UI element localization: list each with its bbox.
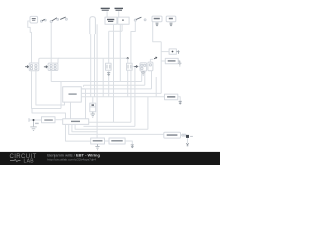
dark text blobs <box>25 8 177 142</box>
wire J3 pin to x108 column <box>109 24 122 31</box>
wire y57.8 horizontal <box>40 57 128 59</box>
arrow between D2 D3 <box>134 65 137 67</box>
relay D3 block <box>140 63 147 71</box>
wire SW4 down to D2 <box>131 21 135 63</box>
leader label1 <box>106 11 108 17</box>
arrow under D1 <box>107 73 110 76</box>
mesh horizontal y88.35 <box>81 88 151 90</box>
USB connector J1 box <box>105 17 117 24</box>
wire V1 down-jog <box>28 21 32 63</box>
wire J2 bottom to mesh <box>50 71 52 82</box>
J3 dot <box>122 20 124 21</box>
J1 text <box>107 19 114 20</box>
mesh horizontal y84.8 <box>84 84 145 86</box>
switch SW4 end circle <box>144 19 146 21</box>
ground under U4 <box>95 144 99 150</box>
EBT PWR box U1 <box>63 87 82 102</box>
mesh horizontal y81 <box>51 81 142 83</box>
CircuitLab logo <box>10 154 37 165</box>
wire D1 column lower <box>108 76 110 97</box>
top right box A <box>152 16 162 22</box>
boxC right arrow <box>176 50 179 54</box>
mesh horizontal y92.9 <box>81 92 161 94</box>
C2 hook <box>58 58 59 63</box>
connector T2 tall <box>90 17 96 34</box>
wire T2 right leg <box>94 34 96 97</box>
arrow tick top <box>154 57 157 59</box>
switch SW3 blade <box>60 17 65 19</box>
throttle box U5 <box>109 138 125 144</box>
fuse dark mark <box>92 104 95 106</box>
connector circles <box>182 134 184 136</box>
J2 left arrow <box>44 66 47 68</box>
switch SW1 blade <box>42 19 45 21</box>
wire T2 left leg <box>90 34 92 97</box>
wire BMS right pin <box>89 121 131 123</box>
U4 text <box>93 140 103 141</box>
J4 top-right hook wire <box>39 58 40 63</box>
switch SW4 blade <box>136 17 141 19</box>
mesh riser D3 pinR <box>144 71 146 85</box>
relay boxC <box>169 49 176 54</box>
boxC dot <box>172 51 174 53</box>
relay D4 block <box>148 62 153 71</box>
BMS box text <box>71 121 80 122</box>
D1 inner mark <box>107 65 110 69</box>
motor ctrl text <box>167 96 175 98</box>
wire U6 right <box>181 134 182 136</box>
wire J3 pinL down <box>119 24 121 81</box>
wire D1 bottom <box>108 70 110 72</box>
switch SW1 end circle <box>45 19 47 21</box>
svg-text:http://circuitlab.com/c/22b4ay: http://circuitlab.com/c/22b4aya7qh4 <box>47 157 96 161</box>
wire J1 pinL long to speed box <box>96 24 98 138</box>
wire J4 pinL down <box>32 71 62 109</box>
speed box U4 <box>91 138 105 144</box>
wire BMS pin3 <box>72 124 97 131</box>
riser x155.7 <box>155 77 157 97</box>
wire y125.9 <box>84 125 135 127</box>
wire BMS pin4 <box>75 124 148 129</box>
svg-text:LAB: LAB <box>24 159 35 165</box>
wire battery node to bat switch <box>29 119 42 121</box>
riser D2 arrow column <box>134 67 136 127</box>
fuse F1 box <box>90 103 96 112</box>
wire to relay boxC <box>161 51 169 53</box>
ground GND1 <box>30 121 36 131</box>
switch SW2 blade <box>52 18 57 21</box>
wire to boxD <box>161 60 165 62</box>
wire PWR bottom pin <box>70 102 72 119</box>
wire x108 column <box>108 31 110 63</box>
ground GND3 under D3 <box>141 71 145 75</box>
wire PWR stub top <box>83 85 85 86</box>
bat switch text <box>44 119 53 120</box>
wire D2 pinL <box>127 58 129 97</box>
wire PWR stub A <box>81 89 85 119</box>
switch SW2 end circle <box>57 19 59 21</box>
J2 inner circles <box>50 64 52 66</box>
terminal tick <box>28 118 30 122</box>
ground arrow under boxB <box>169 23 172 26</box>
switch SW3 end circle <box>66 18 68 20</box>
J4 left arrow <box>25 66 28 68</box>
D3 inner circles <box>141 64 143 66</box>
ground GND4 right of boxD <box>178 61 181 66</box>
bat switch box S5 <box>42 117 56 123</box>
wire D2 pinR down <box>130 70 132 122</box>
wire D2 to D3 <box>132 66 140 68</box>
label above J1 right <box>115 8 124 9</box>
U6 text <box>167 134 178 136</box>
wire mid column <box>102 58 104 97</box>
D4 inner <box>149 64 151 66</box>
motor M1 dark center <box>186 135 189 138</box>
boxB text <box>169 18 173 20</box>
LED D1 box <box>106 63 112 70</box>
ground arrow under boxA <box>155 23 158 26</box>
arrow ground after U5 <box>131 145 134 148</box>
switch SW2 terminal circle <box>50 21 52 23</box>
boxA text <box>154 18 160 20</box>
boxA pin <box>156 22 158 23</box>
wire BMS pin2 motor line <box>69 124 164 134</box>
ground GND2 under fuse <box>91 112 96 117</box>
wire U4 to U5 <box>105 140 110 142</box>
riser x147.4 <box>147 97 149 130</box>
top right box B <box>166 16 176 22</box>
boxD text <box>168 60 176 61</box>
boxB pin <box>170 22 172 23</box>
wire D4 top to corner <box>150 59 153 62</box>
boxD <box>165 58 178 63</box>
wire U3 right <box>178 97 180 101</box>
motor ctrl box U3 <box>165 94 178 100</box>
connector J4 block <box>29 63 39 71</box>
D2 inner mark <box>128 65 131 69</box>
U5 text <box>111 140 122 141</box>
ground GND5 motor <box>186 143 189 146</box>
wire bat switch to BMS <box>55 119 63 121</box>
LED D2 box <box>127 63 133 70</box>
wire SW2 to connector J2 <box>50 23 52 63</box>
motor right dash <box>190 135 193 137</box>
leader label2 <box>118 11 120 17</box>
motor box U6 <box>164 132 181 138</box>
power supply V1 box <box>30 16 38 23</box>
J4 inner circles <box>30 65 32 67</box>
PWR box text <box>69 93 77 94</box>
mesh riser D4 pin <box>151 71 153 89</box>
junction dot y57.8 <box>127 57 129 59</box>
right column x160.7 <box>160 42 162 94</box>
fuse F1 divider <box>90 106 96 108</box>
wire bat node to BMS top pin <box>32 109 66 119</box>
switch SW1 terminal circle <box>41 20 43 22</box>
wire fuse top <box>92 97 94 103</box>
wire U5 right to ground <box>125 141 132 145</box>
motor wire down <box>187 138 189 143</box>
mesh riser D3 pinL <box>141 71 143 82</box>
mesh horizontal y96.3 to motor ctrl <box>81 96 164 98</box>
wire J1 pinR long <box>113 24 115 122</box>
caption bar <box>0 152 220 165</box>
bat small label <box>35 123 39 124</box>
aux box J3 <box>118 17 129 24</box>
V1 label text <box>32 18 36 19</box>
wire BMS pin1 to speed box <box>66 124 91 141</box>
stub x152 <box>153 21 162 42</box>
connector J2 block <box>48 63 58 70</box>
arrow under U3 wire <box>179 101 182 104</box>
bat node dot <box>33 119 35 121</box>
label above J1 left <box>101 8 110 9</box>
EBT BMS box U2 <box>63 119 89 125</box>
wire J4 pinR down <box>36 71 65 105</box>
switch SW4 terminal circle <box>134 19 136 21</box>
